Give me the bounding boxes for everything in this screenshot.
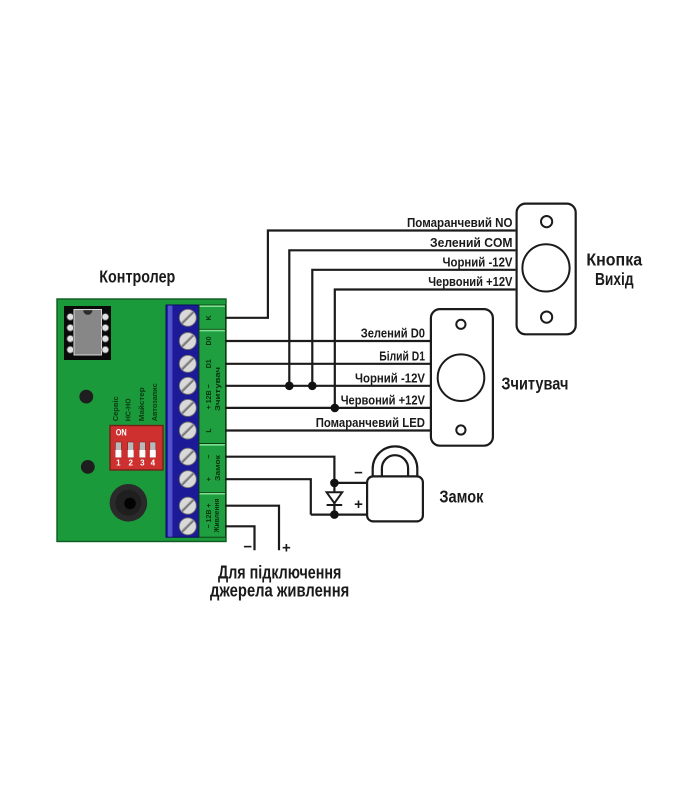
wire +12V : terminal 5 to reader xyxy=(225,407,431,409)
IC U1 pin 1 xyxy=(67,314,74,321)
wire K : terminal 1 to exit button NO xyxy=(225,231,515,318)
wire -12V : terminal 4 to reader xyxy=(225,385,431,387)
diode VD1 (flyback) xyxy=(327,492,343,505)
svg-text:Помаранчевий LED: Помаранчевий LED xyxy=(316,415,425,430)
junction button -12V to rail xyxy=(308,382,317,391)
svg-text:1: 1 xyxy=(116,458,121,467)
exit button plate xyxy=(517,204,576,335)
svg-text:Червоний +12V: Червоний +12V xyxy=(341,392,426,407)
IC U1 pin 7 xyxy=(102,324,109,331)
svg-text:D0: D0 xyxy=(206,336,213,345)
wire lock minus to lock body xyxy=(334,482,367,484)
wire button red +12V xyxy=(335,290,516,408)
svg-text:Білий D1: Білий D1 xyxy=(379,348,425,363)
svg-text:ON: ON xyxy=(116,428,127,439)
IC U1 socket (black pad) xyxy=(64,306,111,360)
wire power minus : terminal 10 xyxy=(225,526,255,550)
svg-text:джерела живлення: джерела живлення xyxy=(210,581,349,601)
svg-text:+: + xyxy=(206,477,213,481)
svg-text:Живлення: Живлення xyxy=(214,499,221,534)
svg-text:Сервіс: Сервіс xyxy=(111,396,120,421)
terminal screw 1 xyxy=(179,309,196,326)
wire lock minus : terminal 7 xyxy=(225,457,334,483)
lock shackle inner xyxy=(382,455,408,477)
junction button +12V to rail xyxy=(331,404,340,413)
IC U1 pin 3 xyxy=(67,335,74,342)
svg-text:Автозапис: Автозапис xyxy=(150,383,159,421)
svg-text:Чорний -12V: Чорний -12V xyxy=(355,370,425,385)
IC U1 pin 8 xyxy=(102,314,109,321)
svg-text:Кнопка: Кнопка xyxy=(586,250,642,270)
terminal block highlight stripe xyxy=(168,306,173,537)
svg-text:3: 3 xyxy=(140,458,145,467)
svg-text:+: + xyxy=(282,540,291,557)
svg-text:−: − xyxy=(243,539,252,556)
wire button black -12V xyxy=(312,270,515,386)
DIP switch slider 4 xyxy=(150,442,156,458)
svg-text:L: L xyxy=(206,428,213,433)
svg-text:Контролер: Контролер xyxy=(99,266,175,286)
terminal screw 5 xyxy=(179,399,196,416)
svg-text:4: 4 xyxy=(151,458,156,467)
svg-text:2: 2 xyxy=(128,458,133,467)
svg-text:Червоний +12V: Червоний +12V xyxy=(428,274,513,289)
terminal screw 6 xyxy=(179,422,196,439)
svg-text:Зелений COM: Зелений COM xyxy=(430,235,513,250)
svg-text:Майстер: Майстер xyxy=(137,387,146,422)
svg-text:Зчитувач: Зчитувач xyxy=(215,367,222,411)
terminal cover section K xyxy=(199,305,226,329)
IC U1 pin 4 xyxy=(67,346,74,353)
junction COM to -12V rail xyxy=(285,382,294,391)
wire through diode VD1 xyxy=(333,483,335,515)
terminal screw 8 xyxy=(179,471,196,488)
controller PCB board xyxy=(57,299,226,542)
IC U1 pin 6 xyxy=(102,335,109,342)
IC U1 body xyxy=(74,310,102,356)
terminal block (blue) xyxy=(166,305,199,537)
svg-text:− 12В +: − 12В + xyxy=(206,504,213,529)
reader plate xyxy=(431,309,493,446)
terminal screw 3 xyxy=(179,355,196,372)
buzzer xyxy=(110,484,148,522)
DIP switch slider 3 xyxy=(139,442,145,458)
wire D0 : terminal 2 to reader xyxy=(225,340,431,342)
junction diode cathode node xyxy=(330,510,339,519)
IC U1 notch xyxy=(83,310,92,315)
terminal screw 10 xyxy=(179,518,196,535)
reader screw hole bottom xyxy=(456,425,465,434)
wire D1 : terminal 3 to reader xyxy=(225,363,431,365)
DIP switch slider 1 xyxy=(115,442,121,458)
svg-text:−: − xyxy=(354,465,363,482)
reader screw hole top xyxy=(456,320,465,329)
exit button pushbutton xyxy=(522,244,569,291)
svg-text:+: + xyxy=(354,496,363,513)
svg-text:Замок: Замок xyxy=(215,454,222,481)
svg-text:K: K xyxy=(206,315,213,320)
junction diode anode node xyxy=(330,479,339,488)
svg-text:Зчитувач: Зчитувач xyxy=(501,374,568,394)
terminal screw 7 xyxy=(179,448,196,465)
svg-text:Замок: Замок xyxy=(439,487,483,507)
buzzer center hole xyxy=(124,498,136,510)
mounting hole top xyxy=(79,390,93,404)
exit button screw hole top xyxy=(541,216,552,227)
IC U1 pin 5 xyxy=(102,346,109,353)
wire lock plus : terminal 8 xyxy=(225,479,311,514)
exit button screw hole bottom xyxy=(541,312,552,323)
lock shackle outer xyxy=(373,446,418,477)
wire power plus : terminal 9 xyxy=(225,506,279,551)
svg-text:Для підключення: Для підключення xyxy=(218,563,341,583)
lock body xyxy=(367,476,423,521)
terminal cover section power xyxy=(199,493,226,538)
wire LED : terminal 6 to reader xyxy=(225,429,431,431)
reader coil circle xyxy=(438,354,485,401)
svg-text:Зелений D0: Зелений D0 xyxy=(361,326,425,341)
wire lock plus to lock body xyxy=(311,513,367,515)
svg-text:−: − xyxy=(206,455,213,459)
svg-text:+ 12В −: + 12В − xyxy=(206,384,213,409)
terminal screw 4 xyxy=(179,377,196,394)
terminal screw 2 xyxy=(179,333,196,350)
wire button COM : button to -12V rail xyxy=(289,250,515,385)
svg-text:D1: D1 xyxy=(206,359,213,368)
svg-text:НС-НО: НС-НО xyxy=(124,398,133,421)
mounting hole bottom xyxy=(81,460,95,474)
DIP switch slider 2 xyxy=(128,442,134,458)
terminal cover section reader xyxy=(199,329,226,443)
terminal cover section lock xyxy=(199,444,226,493)
IC U1 pin 2 xyxy=(67,324,74,331)
svg-text:Помаранчевий NO: Помаранчевий NO xyxy=(407,215,513,230)
DIP switch SW1 body xyxy=(110,426,163,471)
terminal screw 9 xyxy=(179,497,196,514)
svg-text:Вихід: Вихід xyxy=(595,269,634,289)
svg-text:Чорний -12V: Чорний -12V xyxy=(443,254,513,269)
